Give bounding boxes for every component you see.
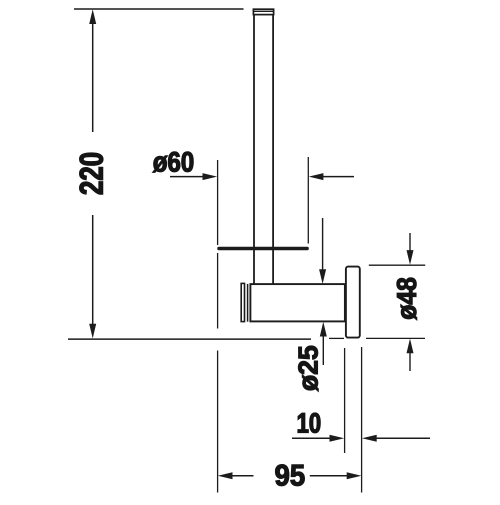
label o48 [397, 278, 417, 320]
dim o48 bottom arrow tail [409, 353, 411, 372]
baseline [68, 338, 311, 340]
dim 95 right arrowhead [347, 472, 362, 479]
dim 220 bottom arrowhead [89, 324, 96, 339]
label o60 [153, 152, 193, 173]
dim o48 bottom extension stub left of plate [329, 337, 344, 339]
dim o60 right extension line [307, 157, 309, 244]
wall extension line right [361, 347, 363, 493]
dim 95 left arrow tail [233, 475, 254, 477]
dim 10 right arrowhead [362, 435, 377, 442]
dim 220 line top segment [92, 23, 94, 132]
dim 95 right arrow tail [310, 475, 347, 477]
dim o60 left arrowhead [203, 173, 218, 180]
dim o25 top arrow tail [322, 218, 324, 271]
label 10 [298, 413, 320, 433]
roll rest plate (o60 disc edge view) [217, 247, 308, 250]
dim o60 left arrow tail [170, 176, 203, 178]
wall plate [346, 267, 360, 338]
arm end inner line [247, 284, 249, 322]
dim o48 top arrowhead [407, 250, 414, 265]
dim 220 line bottom segment [92, 215, 94, 325]
label 95 [275, 465, 304, 486]
arm end cap [241, 283, 244, 321]
dim o48 bottom arrowhead [407, 339, 414, 354]
dim o60 left extension line mid [217, 253, 219, 329]
dim 10 left arrowhead [330, 435, 345, 442]
dim o25 bottom arrowhead [320, 322, 327, 337]
label 220 [80, 153, 103, 194]
dim 95 left arrowhead [218, 472, 233, 479]
dim o48 top extension line [369, 264, 425, 266]
dim 220 top arrowhead [89, 9, 96, 24]
dim o60 left extension line upper [217, 160, 219, 245]
post top cap [253, 9, 273, 14]
dim o48 bottom extension line [366, 337, 425, 339]
dim o60 right arrowhead [309, 173, 324, 180]
dim 95 left extension line lower [217, 351, 219, 493]
post body left edge [253, 15, 255, 285]
dim 10 left arrow tail [292, 437, 331, 439]
dim 10 left extension line [344, 348, 346, 453]
top extension line [74, 8, 244, 10]
arm body [250, 284, 345, 321]
dim o48 top arrow tail [409, 233, 411, 252]
post cap inner line [253, 10, 273, 12]
dim 10 right arrow tail [377, 437, 431, 439]
post body right edge [272, 15, 274, 285]
dim o60 right arrow tail [323, 176, 354, 178]
dim o25 top arrowhead [319, 269, 326, 284]
label o25 [298, 346, 318, 391]
dim o25 bottom arrow tail [322, 336, 324, 365]
